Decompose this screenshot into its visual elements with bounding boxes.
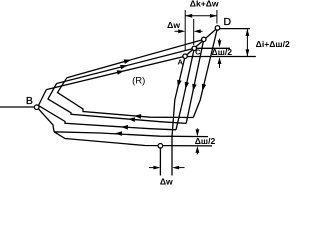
node C2 circle [192,46,196,50]
terminal E circle [158,144,163,149]
arrow on S4 down [177,80,182,87]
arrow on LD1 [124,59,131,64]
resistor diagonal LD2 [57,48,195,83]
svg-text:D: D [224,16,232,28]
terminal B circle [34,105,39,110]
wire B to run4 [38,109,54,132]
svg-text:Δw: Δw [167,20,180,30]
svg-text:A: A [177,57,183,66]
wire steep S3 from C2 [176,48,194,130]
arrow on run1 left [134,114,141,119]
resistor diagonal LD1 [67,39,204,77]
arrow on LD2 [120,65,127,69]
wire riser2 and run2 [48,84,186,124]
node A circle [183,54,187,58]
wire D lead right [220,28,250,30]
arrow on S2 down [192,84,197,91]
svg-text:(R): (R) [132,76,145,87]
wire steep S4 from A with vertical tail [172,56,185,175]
dimension dk+dw [185,10,217,51]
svg-text:C: C [195,47,201,56]
dimension di+du/2 right [246,29,248,56]
svg-text:Δi+Δш/2: Δi+Δш/2 [256,39,290,49]
svg-text:Δw: Δw [160,177,173,187]
wire E branch [54,132,212,146]
node C3 circle [202,37,206,41]
wire C2 line right [196,47,230,49]
svg-text:Δш/2: Δш/2 [195,136,216,146]
dimension dw bottom [153,166,179,170]
arrow on LD3 [117,70,124,75]
wire riser3 and run3 [39,90,177,130]
dimension du/2 top [218,40,222,64]
terminal D circle [215,26,220,31]
arrow on S1 down [202,84,206,91]
resistor diagonal LD3 [46,56,185,89]
arrow on S3 down [185,82,189,89]
wire B lead-in [0,106,35,108]
extension line below E [159,148,161,176]
svg-text:Δk+Δw: Δk+Δw [190,0,219,9]
wire run4 with extension [54,132,208,137]
dimension du/2 bottom [196,129,200,153]
svg-text:B: B [26,95,33,107]
wire steep S2 from C3 [186,39,204,123]
svg-text:Δш/2: Δш/2 [212,47,233,57]
arrow on run3 left [121,125,128,130]
wire steep S1 from D [193,28,217,118]
arrow on run2 left [128,117,135,122]
arrow on run4 left [115,131,122,136]
wire A line right [187,56,256,58]
wire riser1 and run1 [58,78,194,118]
dimension dw top [175,19,203,45]
wire contact line A to D [185,28,217,56]
